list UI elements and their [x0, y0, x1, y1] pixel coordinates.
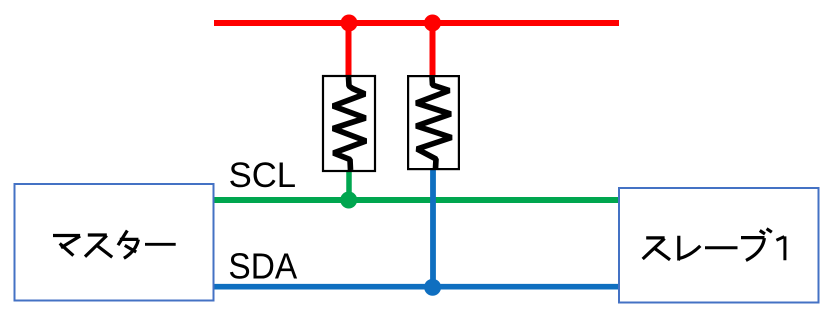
junction node on VCC rail at R2: [424, 15, 441, 32]
katakana long vowel mark: [705, 246, 738, 249]
digit 1: [776, 236, 785, 260]
wire resistor R1 to SCL net: [346, 170, 352, 200]
slave block: [619, 188, 819, 303]
slave block label "スレーブ1": [643, 229, 785, 261]
master block: [15, 184, 214, 301]
katakana BU: [741, 229, 772, 261]
junction node on SCL net: [340, 192, 357, 209]
svg-text:SCL: SCL: [229, 155, 297, 195]
wire VCC rail to resistor R2: [430, 23, 436, 77]
katakana MA: [53, 236, 80, 256]
net label SCL: [229, 155, 297, 195]
resistor R2 (pull-up): [408, 76, 459, 169]
junction node on SDA net: [424, 279, 441, 296]
resistor R1 (pull-up): [323, 76, 375, 171]
wire resistor R2 to SDA net: [430, 168, 436, 287]
katakana SU: [643, 238, 670, 260]
wire SDA net (blue bus line): [215, 284, 619, 290]
net label SDA: [228, 246, 297, 287]
katakana TA: [118, 231, 138, 259]
master block label "マスター": [53, 231, 176, 259]
svg-text:SDA: SDA: [228, 246, 297, 287]
katakana RE: [679, 236, 701, 259]
katakana SU: [85, 235, 112, 257]
junction node on VCC rail at R1: [341, 15, 358, 32]
katakana long vowel mark: [145, 243, 176, 246]
wire SCL net (green bus line): [214, 197, 618, 203]
wire VCC rail: [214, 20, 619, 26]
wire VCC rail to resistor R1: [346, 23, 352, 77]
